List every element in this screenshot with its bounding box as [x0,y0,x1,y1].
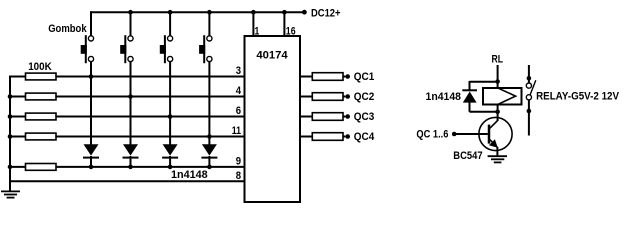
diode D1 [83,144,99,157]
svg-text:1n4148: 1n4148 [426,91,462,103]
svg-text:3: 3 [236,65,241,77]
op-amp U1 40174 body [245,36,301,202]
ground transistor [488,156,507,162]
svg-text:8: 8 [236,170,241,182]
push button S4 [199,35,212,63]
wire emitter to ground [496,147,498,156]
wire row pin6 [10,116,244,118]
svg-text:16: 16 [286,25,296,37]
wire diode2 to row9 [130,156,132,167]
resistor R6 [312,73,343,81]
wire column2 below button [130,62,132,145]
svg-text:100K: 100K [28,61,52,73]
wire diode3 to row9 [169,156,171,167]
wire diode D5 bottom [469,102,471,112]
svg-text:QC3: QC3 [354,111,375,123]
svg-text:1n4148: 1n4148 [171,169,208,181]
diode D5 flyback [462,90,477,102]
push button S1 [81,35,94,63]
wire column3 below button [169,62,171,145]
svg-text:RELAY-G5V-2 12V: RELAY-G5V-2 12V [536,90,619,102]
svg-text:Gombok: Gombok [48,23,87,35]
wire base [455,133,488,135]
svg-text:9: 9 [236,155,241,167]
resistor R9 [312,133,343,141]
push button S3 [160,35,173,63]
svg-text:BC547: BC547 [453,150,482,162]
terminal QC3 [345,111,374,123]
wire relay coil feed [497,65,499,87]
wire button4 top lead [208,12,210,36]
resistor R7 [312,93,343,101]
wire row pin9 [10,166,244,168]
junction dots rail [128,10,287,15]
resistor R8 [312,113,343,121]
wire row pin3 [10,76,244,78]
wire diode1 to row9 [90,156,92,167]
junction dots bus [8,94,13,169]
wire diode4 to row9 [208,156,210,167]
svg-text:4: 4 [236,85,242,97]
wire column4 below button [208,62,210,145]
wire top supply rail [91,11,305,13]
terminal QC2 [345,91,374,103]
svg-text:QC4: QC4 [354,131,375,143]
resistor R1 100K [26,61,57,80]
svg-text:1: 1 [255,25,260,37]
wire QC1 output [300,76,312,78]
terminal QC4 [345,131,375,143]
wire row pin8 [10,180,244,182]
wire QC4 output [300,136,312,138]
svg-text:11: 11 [232,125,241,137]
wire button3 top lead [169,12,171,36]
wire column1 below button [90,62,92,145]
svg-text:40174: 40174 [256,50,288,62]
svg-text:QC2: QC2 [354,91,375,103]
relay contacts [526,76,535,136]
diode D3 [162,144,178,157]
wire pin1 supply lead [252,12,254,36]
svg-text:QC1: QC1 [354,71,375,83]
wire pin16 supply lead [283,12,285,36]
wire button1 top lead [90,11,92,36]
svg-text:DC12+: DC12+ [311,8,341,20]
ground left [1,191,20,197]
terminal QC1 [345,71,374,83]
terminal QC 1..6 [416,128,456,140]
junction coil top [495,79,500,84]
junction dots diodes to row9 [89,165,212,170]
resistor R3 [26,113,57,120]
push button S2 [120,35,133,63]
wire button2 top lead [130,12,132,36]
wire left pulldown bus [9,76,11,192]
wire QC2 output [300,96,312,98]
resistor R2 [26,93,57,100]
terminal DC12+ [302,8,341,20]
svg-text:QC 1..6: QC 1..6 [416,128,448,140]
wire QC3 output [300,116,312,118]
wire row pin11 [10,136,244,138]
diode D4 [201,144,217,157]
svg-text:6: 6 [236,105,241,117]
diode D2 [123,144,139,157]
junction coil bottom [495,110,500,115]
svg-text:RL: RL [492,54,504,66]
resistor R5 [26,164,57,171]
wire coil bottom to collector [497,106,499,122]
relay RL coil [483,88,522,105]
wire row pin4 [10,96,244,98]
resistor R4 [26,133,57,140]
wire relay contact feed [528,65,530,83]
junction dots columns to rows [89,74,212,139]
wire diode D5 top [470,81,498,83]
transistor Q1 BC547 [479,117,512,150]
